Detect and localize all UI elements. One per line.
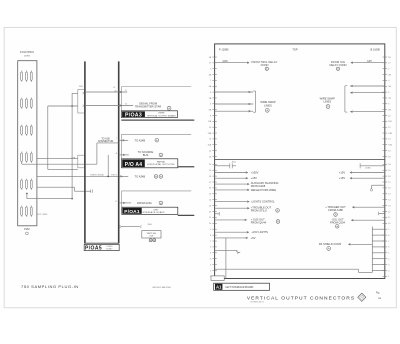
pin tick right top 2 bbox=[383, 63, 392, 65]
svg-text:P4B: P4B bbox=[71, 158, 75, 160]
svg-text:J104: J104 bbox=[231, 162, 235, 164]
footer rev note bbox=[153, 286, 172, 289]
wire GRN from trig delay bbox=[215, 60, 278, 70]
svg-text:FROM A208: FROM A208 bbox=[251, 184, 266, 188]
ladder rung 8 bbox=[372, 270, 385, 272]
svg-text:BUS: BUS bbox=[143, 153, 149, 157]
pin tick left bottom 17 bbox=[210, 259, 217, 261]
pin tick right bottom 11 bbox=[383, 223, 392, 225]
board label P/OA3 bbox=[121, 111, 177, 119]
title subtext bbox=[250, 302, 264, 304]
svg-text:44: 44 bbox=[125, 103, 127, 105]
pin tick left bottom 12 bbox=[210, 229, 217, 231]
svg-text:1: 1 bbox=[154, 239, 155, 241]
board label P/OA5 bbox=[84, 243, 119, 252]
wire J2 row bbox=[85, 87, 127, 93]
pin tick right top 12 bbox=[383, 121, 393, 123]
svg-text:-LIGHTS CONTROL: -LIGHTS CONTROL bbox=[251, 200, 276, 204]
connector P162 pin group 2 bbox=[21, 98, 33, 109]
ladder rung 7 bbox=[372, 264, 385, 266]
svg-text:1: 1 bbox=[335, 214, 336, 216]
wire GRY from sig delay bbox=[330, 60, 385, 70]
wire trigger out bbox=[325, 205, 385, 216]
svg-text:TO A24B: TO A24B bbox=[135, 138, 146, 142]
svg-text:7: 7 bbox=[116, 138, 117, 140]
connector stub right pin bbox=[379, 212, 385, 215]
svg-text:1: 1 bbox=[328, 248, 329, 250]
header B J1090 bbox=[370, 47, 380, 51]
wire TO A24B lower bbox=[120, 175, 162, 179]
svg-text:+15V: +15V bbox=[251, 176, 257, 180]
svg-text:TO A24B: TO A24B bbox=[135, 175, 146, 179]
bus wire shield ladder bbox=[371, 227, 373, 273]
pin tick right bottom 9 bbox=[383, 211, 392, 213]
board outline P/OA4 bbox=[122, 134, 192, 158]
svg-text:40: 40 bbox=[115, 91, 117, 93]
pin tick left top 1 bbox=[209, 56, 217, 59]
pin tick right bottom 18 bbox=[383, 264, 391, 266]
wire FROM A24A bbox=[119, 201, 163, 205]
pin tick left bottom 6 bbox=[209, 194, 217, 196]
pin tick left bottom 18 bbox=[210, 264, 217, 266]
svg-text:+15V: +15V bbox=[339, 170, 345, 174]
svg-text:P/OA3: P/OA3 bbox=[125, 112, 142, 118]
svg-text:INTERFACE BOARD: INTERFACE BOARD bbox=[142, 211, 165, 214]
connector block outline bbox=[215, 44, 385, 279]
svg-text:1: 1 bbox=[160, 154, 161, 156]
svg-text:13B: 13B bbox=[388, 133, 392, 135]
svg-text:CONN: CONN bbox=[261, 63, 269, 67]
wire swap group right bbox=[320, 85, 385, 113]
title VERTICAL OUTPUT CONNECTORS bbox=[247, 296, 355, 302]
svg-text:P/OA1: P/OA1 bbox=[124, 209, 140, 215]
pin tick right top 10 bbox=[383, 109, 392, 111]
pin tick left top 6 bbox=[209, 85, 217, 88]
pin tick right bottom 3 bbox=[383, 176, 392, 178]
connector J104 stub bbox=[215, 162, 236, 169]
svg-text:1: 1 bbox=[337, 225, 338, 227]
svg-text:VERTICAL OUTPUT BOARD: VERTICAL OUTPUT BOARD bbox=[147, 114, 176, 117]
svg-text:J2: J2 bbox=[125, 90, 127, 92]
net label 7 bbox=[116, 138, 117, 140]
svg-text:1: 1 bbox=[169, 107, 170, 109]
svg-text:1: 1 bbox=[160, 176, 161, 178]
pin tick right top 8 bbox=[383, 98, 392, 100]
svg-text:GRN: GRN bbox=[223, 61, 228, 63]
pin tick right top 4 bbox=[383, 74, 392, 76]
svg-text:15A: 15A bbox=[207, 144, 211, 147]
svg-text:DEFLECTORS WIRE: DEFLECTORS WIRE bbox=[251, 188, 277, 192]
wire trouble out bbox=[215, 205, 280, 212]
wire sol out bbox=[330, 217, 385, 228]
pin tick left bottom 11 bbox=[209, 223, 217, 225]
ladder rung 5 bbox=[372, 252, 385, 254]
wire deflectors bbox=[215, 188, 277, 192]
wire +15V bbox=[215, 176, 258, 180]
svg-text:B J1090: B J1090 bbox=[370, 47, 380, 51]
wire branch with arrow bbox=[215, 251, 241, 254]
svg-text:11A: 11A bbox=[208, 120, 212, 123]
pin tick left top 11 bbox=[210, 115, 217, 117]
pin tick right bottom 6 bbox=[383, 194, 392, 196]
pin tick right bottom 16 bbox=[383, 253, 391, 255]
connector P162 body bbox=[18, 61, 37, 226]
connector stub pin 9 bbox=[215, 212, 220, 216]
svg-text:FROM STILO: FROM STILO bbox=[251, 208, 267, 212]
pin tick right bottom 19 bbox=[383, 270, 391, 272]
board label P/OA1 bbox=[122, 207, 178, 215]
pin tick left bottom 2 bbox=[209, 170, 217, 172]
bus wire left (board P/OA5 left edge) bbox=[84, 61, 86, 243]
board edge line P/OA3 bbox=[121, 119, 194, 121]
svg-text:1: 1 bbox=[156, 139, 157, 141]
svg-text:1: 1 bbox=[150, 239, 151, 241]
svg-text:LINES: LINES bbox=[323, 100, 331, 104]
wire SIGNAL FROM TRANSMITTER STAR bbox=[85, 102, 171, 111]
pin tick left top 10 bbox=[209, 108, 217, 111]
header P J1080 bbox=[219, 47, 229, 51]
pin tick left top 8 bbox=[209, 97, 217, 100]
junction node at x72 bbox=[71, 105, 73, 199]
connector P162 header label bbox=[20, 52, 35, 57]
header TOP bbox=[292, 47, 298, 51]
pin tick right top 11 bbox=[383, 115, 392, 117]
svg-text:1: 1 bbox=[266, 68, 267, 70]
title reference symbol bbox=[358, 293, 366, 301]
board label P/OA4 bbox=[122, 159, 178, 168]
ladder rung 1 bbox=[372, 228, 385, 230]
pin tick right bottom 15 bbox=[383, 247, 391, 249]
svg-text:1: 1 bbox=[328, 106, 329, 108]
pin tick right top 3 bbox=[383, 69, 391, 71]
svg-text:VERT SIG: VERT SIG bbox=[147, 233, 157, 235]
pin tick left top 14 bbox=[207, 132, 216, 135]
wire P162 pin row 4 bbox=[22, 162, 97, 164]
pin tick right top 5 bbox=[383, 80, 391, 82]
svg-text:TOP: TOP bbox=[292, 47, 298, 51]
wire +5V bbox=[215, 236, 256, 240]
long wire TRAVEL SIGNAL to bus bbox=[37, 173, 121, 176]
divider line between connectors bbox=[215, 159, 385, 161]
svg-text:P/OA5: P/OA5 bbox=[85, 246, 102, 252]
connector P162 pin group 3 bbox=[21, 125, 33, 136]
svg-text:LEFT INTERFACE BOARD: LEFT INTERFACE BOARD bbox=[225, 286, 253, 289]
svg-text:J1084: J1084 bbox=[365, 168, 370, 170]
net label J1 bbox=[115, 201, 117, 203]
wire +15V right b bbox=[339, 176, 385, 180]
svg-text:NOT USED: NOT USED bbox=[38, 214, 48, 216]
svg-text:TRAVEL SIGNAL: TRAVEL SIGNAL bbox=[90, 173, 104, 176]
pin tick left bottom 9 bbox=[209, 211, 217, 213]
wire +15V right a bbox=[339, 170, 385, 174]
pin tick right top 15 bbox=[383, 139, 392, 141]
svg-text:RIGHT: RIGHT bbox=[158, 113, 165, 115]
pin tick left bottom 5 bbox=[209, 188, 217, 190]
svg-text:J4: J4 bbox=[113, 87, 115, 89]
wire bracket upper pin left segment bbox=[72, 93, 78, 106]
svg-text:A1: A1 bbox=[216, 285, 222, 290]
pin tick right bottom 5 bbox=[383, 188, 392, 190]
pin tick left top 9 bbox=[210, 104, 217, 106]
terminal box at block corner bbox=[211, 276, 224, 281]
net label B bbox=[116, 174, 118, 176]
pin tick right top 13 bbox=[383, 127, 392, 129]
pin tick right bottom 17 bbox=[383, 259, 391, 261]
svg-text:J1: J1 bbox=[115, 201, 117, 203]
wire J104 vert sig out bbox=[120, 224, 152, 228]
pin tick left bottom 13 bbox=[210, 235, 217, 237]
svg-text:P/O A4: P/O A4 bbox=[125, 162, 142, 168]
wire +150V bbox=[215, 170, 259, 174]
wire +15V lights bbox=[215, 230, 269, 234]
wire TO A24B upper bbox=[119, 138, 159, 142]
connector P162 pin group 1 bbox=[21, 71, 33, 82]
svg-text:CONT: CONT bbox=[24, 55, 31, 57]
svg-text:FROM A188: FROM A188 bbox=[328, 208, 343, 212]
svg-text:1: 1 bbox=[277, 210, 278, 212]
connector P4B bbox=[71, 155, 84, 168]
wire TO SOURCE BUS bbox=[119, 150, 163, 157]
ladder rung 3 bbox=[372, 240, 385, 242]
svg-text:P J1080: P J1080 bbox=[219, 47, 229, 51]
pin tick right bottom 1 bbox=[383, 164, 392, 166]
wire lights control bbox=[215, 200, 276, 204]
pin tick left bottom 3 bbox=[209, 176, 217, 178]
bus wire right (board P/OA5 right edge) bbox=[118, 61, 120, 243]
paper sheet bbox=[4, 27, 396, 307]
pin tick right top 18 bbox=[383, 156, 392, 158]
svg-text:+15V LIGHTS: +15V LIGHTS bbox=[251, 230, 268, 234]
svg-text:750 SAMPLING PLUG-IN: 750 SAMPLING PLUG-IN bbox=[21, 284, 79, 289]
svg-text:FROM QU44: FROM QU44 bbox=[251, 221, 267, 225]
fig number bbox=[376, 292, 382, 300]
svg-text:+150V: +150V bbox=[251, 170, 259, 174]
svg-text:1: 1 bbox=[267, 109, 268, 111]
wire P162 to P4B bbox=[37, 157, 78, 159]
board edge line P/OA1 bbox=[178, 214, 195, 216]
svg-text:TRANSMITTER STAR: TRANSMITTER STAR bbox=[135, 105, 161, 109]
net label A bbox=[116, 152, 118, 155]
pin tick right top 7 bbox=[383, 92, 391, 94]
pin tick left top 15 bbox=[209, 139, 217, 141]
pin tick left bottom 19 bbox=[210, 270, 217, 272]
svg-text:LINES: LINES bbox=[264, 103, 272, 107]
pin tick right bottom 8 bbox=[383, 205, 392, 207]
connector P162 bottom designator bbox=[24, 228, 30, 235]
footer 750 sampling plug-in bbox=[21, 284, 79, 289]
board outline P/OA1 bbox=[122, 191, 192, 207]
pin tick left top 7 bbox=[210, 92, 217, 94]
svg-text:REV A21 JAN 1984: REV A21 JAN 1984 bbox=[153, 286, 172, 289]
svg-text:1: 1 bbox=[338, 68, 339, 70]
svg-text:FROM Q204: FROM Q204 bbox=[330, 220, 345, 224]
svg-text:+5V: +5V bbox=[251, 236, 256, 240]
pin tick left bottom 4 bbox=[209, 182, 217, 184]
pin tick left top 12 bbox=[208, 120, 217, 123]
svg-text:DELAY CONN: DELAY CONN bbox=[330, 63, 347, 67]
pin tick right bottom 14 bbox=[383, 241, 391, 243]
pin tick left bottom 7 bbox=[209, 200, 217, 202]
pin tick right bottom 7 bbox=[383, 200, 392, 202]
pin tick left top 4 bbox=[209, 73, 217, 76]
pin tick left top 18 bbox=[209, 156, 217, 158]
ladder rung 4 bbox=[372, 246, 385, 248]
pin tick left bottom 8 bbox=[209, 205, 217, 207]
ladder rung 2 bbox=[372, 234, 385, 236]
connector P16 bbox=[107, 155, 114, 177]
pin tick right top 16 bbox=[383, 145, 393, 147]
svg-text:PARTIAL: PARTIAL bbox=[157, 160, 166, 163]
wire with connector stub bbox=[37, 187, 93, 193]
wire TO A1B CONNECTOR bbox=[97, 137, 119, 164]
connector P42 bbox=[78, 86, 85, 113]
pin tick right top 6 bbox=[383, 86, 392, 88]
svg-text:HORIZONTAL OUTPUT BD: HORIZONTAL OUTPUT BD bbox=[147, 163, 175, 166]
note NOT USED bbox=[38, 214, 48, 216]
svg-text:SCREEN5 M1 LB: SCREEN5 M1 LB bbox=[250, 302, 264, 304]
svg-text:15B: 15B bbox=[388, 145, 392, 147]
pin tick right bottom 4 bbox=[383, 182, 392, 184]
wire long bottom run bbox=[215, 269, 373, 272]
pin tick left top 2 bbox=[209, 63, 217, 65]
svg-text:11B: 11B bbox=[388, 121, 392, 123]
pin tick right bottom 20 bbox=[383, 276, 391, 278]
svg-text:VERTICAL OUTPUT CONNECTORS: VERTICAL OUTPUT CONNECTORS bbox=[247, 296, 355, 302]
wire from P162 to P42 (upper) bbox=[48, 106, 78, 169]
svg-text:1: 1 bbox=[278, 221, 279, 223]
pin tick left top 5 bbox=[210, 80, 217, 82]
pin tick left bottom 14 bbox=[210, 241, 217, 243]
pin tick left top 17 bbox=[209, 150, 217, 152]
svg-text:BOARD: BOARD bbox=[106, 248, 113, 251]
pin tick left bottom 1 bbox=[209, 164, 217, 166]
pin tick left bottom 20 bbox=[210, 276, 217, 278]
wire vertical ground run bbox=[225, 238, 227, 279]
pin tick left bottom 15 bbox=[210, 247, 217, 249]
pin tick right bottom 12 bbox=[383, 229, 391, 231]
svg-text:J104: J104 bbox=[147, 224, 151, 226]
stub with terminal circle bbox=[370, 185, 385, 191]
svg-text:1: 1 bbox=[156, 176, 157, 178]
connector J1084 stub bbox=[360, 163, 385, 169]
pin tick right bottom 2 bbox=[383, 170, 392, 172]
pin tick left top 3 bbox=[210, 69, 217, 71]
svg-text:P-162 NH301: P-162 NH301 bbox=[20, 52, 35, 54]
svg-text:P162: P162 bbox=[24, 228, 30, 231]
pin tick right top 17 bbox=[383, 150, 392, 152]
svg-text:P16: P16 bbox=[111, 175, 114, 177]
wire P162 bottom pin to junction bbox=[26, 193, 72, 199]
board outline P/OA3 bbox=[122, 87, 192, 111]
svg-text:RF SHIELD CONN: RF SHIELD CONN bbox=[319, 242, 341, 246]
svg-text:CONNECTOR: CONNECTOR bbox=[98, 140, 114, 143]
svg-text:1: 1 bbox=[160, 202, 161, 204]
svg-text:+15V: +15V bbox=[339, 176, 345, 180]
svg-text:13A: 13A bbox=[207, 132, 211, 135]
svg-text:GRY: GRY bbox=[367, 61, 372, 63]
pin tick right bottom 13 bbox=[383, 235, 391, 237]
board edge line P/OA4 bbox=[178, 166, 195, 168]
pin tick right top 1 bbox=[383, 57, 392, 59]
board label A1 LEFT INTERFACE BOARD bbox=[214, 283, 270, 290]
connector P162 pin group 6 bbox=[21, 206, 33, 217]
connector P162 pin group 4 bbox=[21, 152, 33, 163]
pin tick left top 13 bbox=[209, 127, 217, 129]
pin tick left bottom 16 bbox=[210, 253, 217, 255]
pin tick left bottom 10 bbox=[209, 217, 217, 219]
pin tick right bottom 10 bbox=[383, 217, 392, 219]
ladder rung 6 bbox=[372, 258, 385, 260]
pin tick left top 16 bbox=[207, 144, 216, 147]
wire sus out bbox=[215, 218, 280, 225]
wire RF shield conn bbox=[319, 242, 372, 250]
wire swap group left bbox=[215, 91, 276, 113]
wire auxiliary blanking bbox=[215, 181, 279, 188]
connector P162 pin group 5 bbox=[21, 179, 33, 190]
pin tick right top 9 bbox=[383, 104, 391, 106]
box VERT SIG OUT bbox=[142, 231, 161, 242]
pin tick right top 14 bbox=[383, 133, 393, 135]
svg-text:FROM A24A: FROM A24A bbox=[137, 201, 152, 205]
